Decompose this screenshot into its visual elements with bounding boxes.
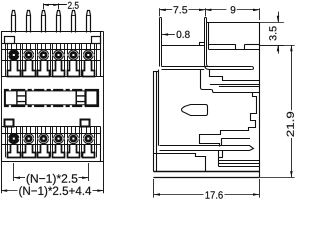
internal shelf steps (right middle) [200,70,260,147]
upper body horizontal partition lines [1,44,101,61]
terminal contact TA5 [67,50,79,61]
pin P5 (front) [72,11,76,33]
pin P1 (side, straight) [160,18,162,67]
comb slot 3 lower [38,145,50,158]
front view: six header pins on top [12,11,91,33]
upper body keying notch left [5,37,15,44]
terminal contact TA2 [23,50,35,61]
side body right edge [259,22,261,177]
terminal contact TB6 [82,133,94,144]
terminal contact TA1 [8,49,20,60]
cavity bullet profile [182,105,208,116]
side body left edge (lower) [153,70,158,172]
lower comb slots (T-shaped) [8,145,95,158]
right outline / extension line [103,32,105,194]
comb slot 5 upper [68,61,80,77]
bottom right plate lines [218,161,259,167]
pin P4 (front) [57,11,61,33]
comb slot 1 lower [8,145,21,158]
terminal contact TB2 [23,133,35,144]
dimension (N-1)*2.5+4.4 [1,186,104,197]
terminal contact TA3 [38,50,50,61]
terminal contact TA4 [53,50,65,61]
castellated internal ledge [208,45,259,50]
lower body partition lines [1,134,101,145]
pin P3 (front) [42,11,46,33]
lower body tab left [5,120,14,127]
dimension 3.5 [259,12,284,54]
lower body tab right [81,120,90,127]
bottom plate top line [153,171,259,173]
comb slot 6 upper [83,61,95,77]
pin P1 (front) [12,11,16,33]
dimension (N-1)*2.5 [14,163,89,185]
terminal contact TB4 [53,133,65,144]
dimension 17.6 [154,179,260,199]
comb slot 2 lower [23,145,36,158]
upper housing body outline [1,32,104,77]
terminal contact TB3 [38,133,50,144]
dimension 21.9 [259,45,294,178]
dimension 0.8 (leader) [162,31,190,38]
dimension 9 [205,6,259,20]
terminal arm (horizontal bar from P1) + P2 tail [162,67,254,70]
upper body slot wall lines [6,44,97,77]
terminal contact TA6 [82,50,94,61]
lower housing body outline [1,127,104,162]
left ledge steps [154,154,206,172]
pin P2 (front) [27,11,31,33]
comb slot 2 upper [23,61,36,77]
lower solder pin (horizontal, pointed tip) [160,146,254,151]
comb slot 5 lower [68,145,80,158]
side body top edge [206,22,259,24]
dimension 7.5 [160,6,206,16]
side body bottom edge [153,177,259,179]
pin P2 (side, L-bend solder tail) [205,18,210,70]
side body top-left edge and collar [162,43,205,46]
comb slot 4 upper [53,61,65,77]
comb slot 1 upper [8,61,21,77]
dimension 2.5 (pin pitch, top) [44,2,79,9]
comb slot 4 lower [53,145,65,158]
middle separator bar (mating seam) [5,88,99,108]
comb slot 6 lower [83,145,95,158]
comb slot 3 upper [38,61,50,77]
pin P6 (front) [87,11,91,33]
upper body keying notch right [92,37,101,44]
upper comb slots (T-shaped) [8,61,95,77]
support block under pin [218,150,223,166]
terminal contact TB5 [67,133,79,144]
inner wall right of P2 [208,22,210,49]
terminal contact TB1 [8,133,20,144]
lower body slot wall lines [6,127,97,158]
left outline / extension line [1,76,3,193]
